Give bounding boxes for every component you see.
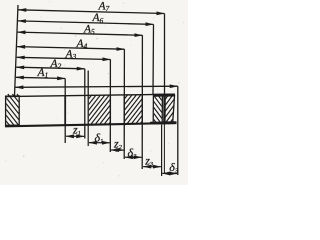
wire A5 right corner vertical [141,35,143,169]
dimension z1 [66,135,84,137]
workpiece band [5,94,177,126]
svg-text:A6: A6 [92,12,104,25]
svg-text:z3: z3 [144,154,154,169]
wire surface line in band at 65 [64,96,66,126]
dimension z3 [143,166,161,168]
hatch block 3 [130,93,154,126]
band bottom edge [5,123,177,126]
wire A8 right extension [177,86,179,175]
dimension z2 [111,149,124,151]
hatched block 4, slanted right edge [173,95,175,124]
hatch block 2 [99,93,125,126]
dimension line A7 [18,10,164,14]
wire A1 right extension [64,79,66,144]
dimension line A5 [18,32,143,35]
svg-text:A3: A3 [65,48,77,61]
dimension line A2 [16,67,85,69]
extension for d1 left [87,125,89,146]
left hatched block [6,96,20,125]
dimension d3 [162,172,177,174]
wire A3 right corner vertical [109,60,111,153]
hatched block 3 [153,95,162,125]
dimension line A4 [17,47,124,50]
labels [37,0,110,79]
dimension line A6 [18,21,153,25]
dimension line A8 unlabeled bottom [15,86,177,87]
extension for z3 right [161,125,163,176]
band top edge [5,94,175,96]
svg-text:A4: A4 [76,38,88,51]
dimension line A3 [17,57,111,59]
left extension line [15,5,19,96]
hatch block 4 [141,93,165,126]
dimension line A1 [16,77,65,78]
svg-text:z2: z2 [113,137,123,152]
thick divider at 164.5 [163,95,166,125]
dimension d2 [125,156,142,158]
svg-text:δ1: δ1 [95,130,104,145]
hatched block 2 [124,94,142,125]
wire A7 right corner vertical [164,14,166,95]
hatch left block [0,94,6,127]
wire divider extension below band [163,124,165,174]
dimension d1 [89,142,110,144]
svg-text:A2: A2 [50,58,62,71]
band top edge thick right [154,94,175,97]
wire A2 right extension [84,69,86,139]
wire A4 right corner vertical [123,49,125,159]
svg-text:A1: A1 [37,67,49,80]
wire A6 right corner vertical [152,24,155,94]
band bottom edge thick right [150,121,177,124]
hatched block 1 [88,71,110,126]
svg-text:δ2: δ2 [128,145,138,160]
bottom dimension chain [66,125,177,176]
svg-text:A5: A5 [83,23,95,36]
hatch block 1 [63,93,89,127]
